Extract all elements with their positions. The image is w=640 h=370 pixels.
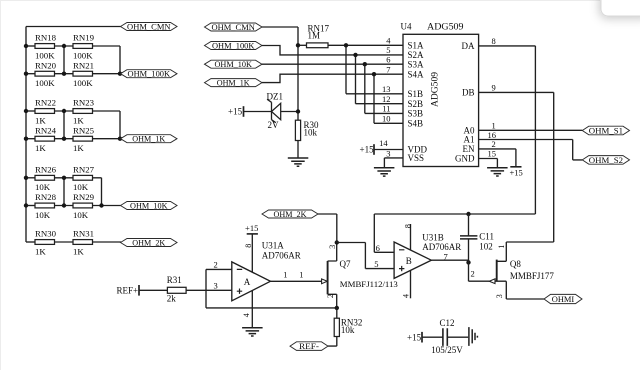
resistor R30 (295, 120, 319, 141)
svg-text:RN31: RN31 (73, 229, 94, 239)
svg-text:100K: 100K (73, 78, 93, 88)
svg-text:10K: 10K (35, 182, 51, 192)
svg-text:REF-: REF- (299, 341, 319, 351)
svg-text:13: 13 (382, 84, 391, 94)
resistor RN20 (35, 60, 57, 88)
resistor RN22 (35, 98, 56, 126)
svg-text:1K: 1K (35, 143, 46, 153)
svg-text:8: 8 (492, 36, 496, 46)
wire inner bus group1 (63, 46, 65, 74)
wire row RN22 left (26, 110, 35, 112)
wire row RN20 left (26, 73, 35, 75)
wire pin2 feedback (206, 269, 337, 308)
wire RN17 left (298, 44, 307, 46)
net flag OHM_100K (121, 69, 178, 79)
svg-text:DZ1: DZ1 (267, 92, 284, 102)
svg-text:1K: 1K (73, 143, 84, 153)
op-amp U4 ADG509 multiplexer body (401, 22, 479, 167)
svg-text:GND: GND (455, 154, 475, 164)
net flag OHM_2K (121, 238, 178, 248)
svg-text:7: 7 (444, 251, 448, 261)
svg-text:2: 2 (214, 260, 218, 270)
wire U31A pin4 (251, 291, 253, 328)
svg-text:1: 1 (283, 270, 287, 280)
wire DB (479, 92, 554, 242)
svg-text:B: B (406, 256, 412, 266)
svg-text:S3A: S3A (408, 59, 425, 69)
svg-text:C11: C11 (479, 232, 494, 242)
wire VDD (374, 149, 403, 151)
svg-text:12: 12 (382, 94, 391, 104)
wire +15 to DZ1 (244, 111, 272, 113)
wire row RN18 left (26, 45, 35, 47)
svg-text:OHM_CMN: OHM_CMN (211, 22, 255, 32)
svg-text:4: 4 (242, 313, 251, 317)
resistor RN32 (334, 317, 362, 336)
svg-text:DA: DA (462, 41, 475, 51)
wire top to OHM_CMN (26, 26, 121, 28)
wire S1A-S1B link (346, 45, 403, 94)
resistor RN25 (73, 125, 95, 153)
wire row RN20 mid (55, 73, 74, 75)
svg-text:S4B: S4B (408, 118, 424, 128)
svg-text:RN30: RN30 (35, 229, 57, 239)
ground g-r30 (288, 158, 309, 166)
junction OHM_1K (118, 137, 122, 141)
wire inner bus group3 (63, 178, 65, 206)
wire VSS (384, 158, 403, 168)
svg-text:OHM_2K: OHM_2K (274, 209, 308, 219)
power port +15 pvdd (360, 144, 375, 155)
svg-text:2: 2 (492, 139, 496, 149)
svg-text:1K: 1K (35, 246, 46, 256)
resistor RN18 (35, 33, 57, 61)
svg-text:10K: 10K (73, 182, 89, 192)
wire RN23 right (93, 111, 121, 139)
wire row RN26 mid (55, 177, 74, 179)
svg-text:RN25: RN25 (73, 125, 95, 135)
svg-text:2k: 2k (167, 294, 177, 304)
wire pin7 to Q8 gate (469, 262, 497, 281)
wire RN25 right to OHM_1K (93, 138, 121, 140)
svg-text:OHM_100K: OHM_100K (128, 69, 171, 79)
svg-text:RN20: RN20 (35, 60, 57, 70)
svg-text:AD706AR: AD706AR (422, 242, 461, 252)
svg-text:REF+: REF+ (117, 285, 139, 295)
wire row RN28 mid (55, 205, 74, 207)
svg-text:3: 3 (328, 245, 337, 249)
ground g-u31a (242, 328, 263, 336)
resistor RN30 (35, 229, 57, 257)
svg-text:10k: 10k (304, 128, 318, 138)
junction inner bus (62, 203, 66, 207)
net flag OHM_10K (121, 201, 178, 211)
svg-text:100K: 100K (73, 50, 93, 60)
zener diode DZ1 (267, 92, 284, 130)
svg-text:2V: 2V (268, 120, 280, 130)
wire DZ1 to node (281, 111, 298, 113)
svg-text:U31A: U31A (262, 241, 284, 251)
svg-text:ADG509: ADG509 (430, 71, 440, 107)
svg-text:RN27: RN27 (73, 165, 95, 175)
junction left bus (24, 137, 28, 141)
ground sideways C12 (469, 327, 478, 346)
wire row RN18 mid (55, 45, 74, 47)
wire row RN26 left (26, 177, 35, 179)
junction S3A (363, 62, 367, 66)
wire row RN24 mid (55, 138, 74, 140)
junction inner bus (62, 137, 66, 141)
svg-text:1: 1 (497, 245, 506, 249)
ground g-vss (374, 168, 395, 176)
svg-text:1K: 1K (35, 115, 46, 125)
svg-text:7: 7 (386, 65, 390, 75)
junction inner bus (62, 176, 66, 180)
junction left bus (24, 203, 28, 207)
op-amp U31B (394, 233, 461, 279)
wire RN19 right (93, 46, 121, 74)
resistor RN26 (35, 165, 57, 193)
wire row RN28 left (26, 205, 35, 207)
svg-text:RN19: RN19 (73, 33, 95, 43)
wire GND pin (479, 159, 498, 168)
junction pin7 node (466, 260, 470, 264)
wire pin6 feedback (374, 214, 535, 252)
wire R30 to ground (297, 141, 299, 158)
svg-text:Q8: Q8 (510, 259, 521, 269)
wire DA (479, 46, 536, 214)
wire S2A-S2B link (356, 55, 404, 104)
svg-text:OHM_1K: OHM_1K (132, 134, 166, 144)
svg-text:DB: DB (462, 88, 475, 98)
svg-text:10k: 10k (341, 325, 355, 335)
svg-text:OHM_S2: OHM_S2 (589, 155, 623, 165)
net flag OHM_100K (205, 41, 263, 51)
junction OHM_100K (118, 72, 122, 76)
net flag OHM_2K (262, 209, 318, 219)
power port +15 pz (228, 106, 244, 117)
svg-text:+15: +15 (510, 167, 523, 177)
pin 4 U31B stub (410, 271, 412, 299)
junction inner bus (62, 72, 66, 76)
resistor RN19 (73, 33, 95, 61)
junction left bus (24, 176, 28, 180)
net flag OHM_S1 (582, 126, 629, 136)
svg-text:100K: 100K (35, 50, 55, 60)
resistor RN28 (35, 192, 57, 220)
junction left bus (24, 109, 28, 113)
svg-text:S3B: S3B (408, 109, 424, 119)
svg-text:6: 6 (386, 55, 390, 65)
svg-text:AD706AR: AD706AR (262, 251, 301, 261)
resistor RN31 (73, 229, 94, 257)
svg-text:10: 10 (382, 114, 391, 124)
wire left bus (25, 27, 27, 243)
svg-text:2: 2 (326, 294, 335, 298)
svg-text:RN23: RN23 (73, 98, 95, 108)
resistor RN21 (73, 60, 94, 88)
wire R31 to pin3 (186, 289, 232, 291)
resistor RN29 (73, 192, 95, 220)
resistor RN23 (73, 98, 95, 126)
svg-text:5: 5 (374, 259, 378, 269)
power +15 EN (510, 167, 523, 178)
svg-text:ADG509: ADG509 (427, 22, 464, 32)
junction OHM_10K (99, 203, 103, 207)
wire REF+ to R31 (139, 289, 167, 291)
svg-text:OHMI: OHMI (552, 294, 575, 304)
transistor Q8 (489, 242, 554, 299)
svg-text:3: 3 (495, 294, 504, 298)
svg-text:Q7: Q7 (340, 259, 351, 269)
junction S2A (353, 53, 357, 57)
svg-text:RN28: RN28 (35, 192, 57, 202)
svg-text:1K: 1K (73, 115, 84, 125)
net flag REF- (290, 341, 328, 351)
wire OHM_100K jog (262, 46, 403, 55)
power port +15 pc12 (407, 332, 422, 343)
svg-text:9: 9 (492, 83, 496, 93)
wire S4A-S4B link (374, 74, 403, 123)
wire RN17 to S1A (328, 44, 403, 46)
wire row RN22 mid (55, 110, 74, 112)
svg-text:1M: 1M (308, 31, 321, 41)
junction DZ1 node (296, 109, 300, 113)
svg-text:14: 14 (379, 138, 388, 148)
svg-text:A: A (244, 277, 251, 287)
svg-text:15: 15 (488, 149, 497, 159)
svg-text:OHM_S1: OHM_S1 (589, 126, 623, 136)
svg-text:S1A: S1A (408, 40, 425, 50)
net flag OHM_1K (205, 78, 263, 88)
net flag OHM_10K (205, 59, 263, 69)
svg-text:RN29: RN29 (73, 192, 95, 202)
svg-text:4: 4 (402, 294, 411, 298)
svg-text:RN22: RN22 (35, 98, 56, 108)
op-amp U31A (232, 241, 301, 301)
resistor RN27 (73, 165, 95, 193)
svg-text:S4A: S4A (408, 69, 425, 79)
wire RN32 top (336, 308, 338, 318)
wire row RN30 mid (55, 241, 74, 243)
resistor RN17 (307, 24, 330, 48)
power +15 pa15 (245, 223, 258, 234)
svg-text:RN26: RN26 (35, 165, 57, 175)
svg-text:1: 1 (299, 270, 303, 280)
wire A1 to OHM_S2 (479, 140, 583, 160)
wire OHM_CMN to vertical (262, 27, 298, 120)
wire U31A pin8 (251, 234, 253, 272)
svg-text:RN21: RN21 (73, 60, 94, 70)
svg-text:10K: 10K (73, 210, 89, 220)
transistor Q7 (322, 243, 399, 308)
svg-text:8: 8 (244, 244, 253, 248)
net flag OHM_S2 (582, 155, 629, 165)
svg-text:EN: EN (463, 144, 475, 154)
net flag OHMI (544, 294, 582, 304)
svg-text:OHM_100K: OHM_100K (212, 41, 255, 51)
svg-text:R31: R31 (167, 275, 182, 285)
wire RN27 right (93, 178, 102, 206)
svg-text:100K: 100K (35, 78, 55, 88)
junction C11 top (466, 212, 470, 216)
junction S1A (344, 43, 348, 47)
wire node to pin5 (337, 243, 394, 269)
svg-text:RN24: RN24 (35, 125, 57, 135)
svg-text:+15: +15 (407, 332, 422, 342)
svg-text:8: 8 (404, 224, 413, 228)
resistor R31 (167, 275, 186, 303)
wire A0 to OHM_S1 (479, 129, 583, 131)
svg-text:OHM_10K: OHM_10K (130, 201, 168, 211)
net flag OHM_1K (121, 134, 178, 144)
svg-text:VSS: VSS (408, 153, 425, 163)
junction Q7 source (335, 306, 339, 310)
svg-text:1K: 1K (73, 246, 84, 256)
svg-text:OHM_10K: OHM_10K (214, 59, 252, 69)
svg-text:105/25V: 105/25V (431, 345, 463, 355)
svg-text:OHM_2K: OHM_2K (132, 238, 166, 248)
net flag OHM_CMN (205, 22, 263, 32)
junction RN17 (296, 43, 300, 47)
junction Q7 drain (335, 240, 339, 244)
resistor RN24 (35, 125, 57, 153)
svg-text:OHM_1K: OHM_1K (217, 78, 251, 88)
svg-text:102: 102 (479, 241, 493, 251)
junction left bus (24, 72, 28, 76)
svg-text:10K: 10K (35, 210, 51, 220)
wire row RN24 left (26, 138, 35, 140)
wire OHM_2K down (318, 214, 337, 243)
svg-text:RN18: RN18 (35, 33, 57, 43)
svg-text:S1B: S1B (408, 89, 424, 99)
svg-text:+15: +15 (360, 145, 375, 155)
junction S4A (372, 72, 376, 76)
junction inner bus (62, 44, 66, 48)
wire inner bus group2 (63, 111, 65, 139)
svg-text:U4: U4 (401, 22, 412, 32)
svg-text:U31B: U31B (422, 233, 444, 243)
wire RN29 right to OHM_10K (93, 205, 121, 207)
power port REF+ pref (117, 285, 140, 296)
svg-text:11: 11 (382, 104, 390, 114)
svg-text:OHM_CMN: OHM_CMN (127, 22, 171, 32)
svg-text:6: 6 (376, 243, 380, 253)
capacitor C11 (460, 214, 494, 262)
wire RN21 right to OHM_100K (93, 73, 121, 75)
wire row RN30 left (26, 241, 35, 243)
net flag OHM_CMN (121, 22, 178, 32)
svg-text:3: 3 (214, 280, 218, 290)
junction left bus (24, 44, 28, 48)
svg-text:+15: +15 (228, 107, 243, 117)
decorative corner card (601, 0, 640, 16)
capacitor C12 (422, 318, 468, 355)
svg-text:S2B: S2B (408, 99, 424, 109)
wire U31B output (431, 260, 468, 262)
svg-text:MMBFJ112/113: MMBFJ112/113 (340, 279, 399, 289)
svg-text:+15: +15 (245, 223, 258, 233)
svg-text:2: 2 (471, 269, 475, 279)
wire EN to +15 (479, 149, 516, 166)
wire S3A-S3B link (365, 64, 403, 113)
wire RN32 to REF- (328, 337, 337, 347)
wire U31A output (270, 280, 327, 282)
pin 8 U31B stub (410, 224, 412, 250)
svg-text:C12: C12 (440, 318, 455, 328)
wire OHM_10K row (262, 63, 403, 65)
wire RN31 right to OHM_2K (93, 241, 122, 243)
wire OHM_1K jog (262, 74, 403, 82)
svg-text:MMBFJ177: MMBFJ177 (510, 271, 555, 281)
ground g-u4 (487, 168, 508, 176)
junction inner bus (62, 109, 66, 113)
